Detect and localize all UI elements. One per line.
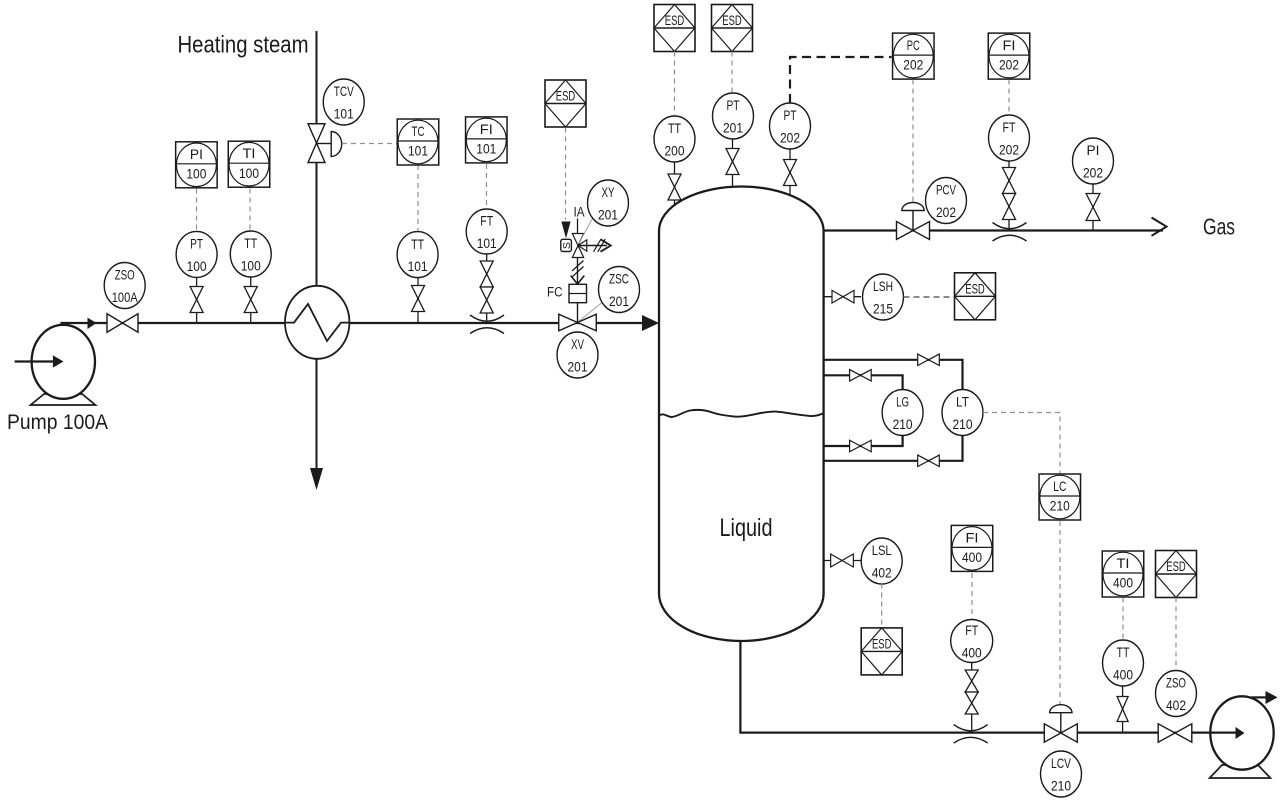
svg-text:PCV: PCV [936, 182, 956, 198]
svg-text:202: 202 [936, 204, 956, 220]
valve LSL root [831, 554, 854, 567]
svg-text:LC: LC [1053, 478, 1066, 494]
svg-text:200: 200 [665, 143, 685, 159]
svg-text:PT: PT [727, 97, 740, 113]
instrument bubble XY 201 [588, 180, 629, 226]
instrument bubble PT 100 [176, 231, 217, 277]
svg-text:LSH: LSH [873, 278, 893, 294]
svg-text:201: 201 [609, 293, 629, 309]
shared instrument LC 210 [1039, 474, 1081, 520]
pump P-100A [32, 325, 95, 399]
signal line LT to LC210 [983, 413, 1060, 474]
signal line LSL to ESD [881, 584, 883, 628]
signal line ESD to ZSO402 [1175, 598, 1177, 671]
svg-text:201: 201 [598, 207, 618, 223]
TCV actuator [331, 132, 342, 157]
signal line FI101 to FT101 [486, 164, 488, 209]
wire feed pipe from pump 100A to vessel [61, 322, 643, 324]
svg-text:FT: FT [480, 213, 493, 229]
valve LCV 210 body [1044, 724, 1077, 742]
instrument bubble TT 101 [397, 232, 438, 278]
svg-text:101: 101 [334, 106, 354, 122]
signal line TC101 to TT101 [417, 165, 419, 231]
instrument bubble TCV 101 [323, 79, 364, 125]
instrument bubble FT 202 [989, 115, 1030, 161]
wire TCV stem [317, 143, 332, 145]
instrument bubble TT 100 [230, 231, 271, 277]
wire TT100 tap [250, 277, 252, 323]
svg-text:TT: TT [411, 236, 424, 252]
instrument bubble LCV 210 [1041, 751, 1082, 797]
svg-text:402: 402 [1166, 697, 1186, 713]
svg-text:PC: PC [907, 37, 920, 53]
arrow pump discharge arrow [1266, 691, 1278, 704]
svg-text:TI: TI [243, 145, 256, 161]
svg-text:PT: PT [784, 107, 797, 123]
wire pump inlet segment [1209, 731, 1237, 733]
solenoid S box [561, 239, 572, 251]
ESD logic box ESD-XV201 [545, 80, 586, 127]
valve TT400 root [1117, 697, 1128, 722]
ESD logic box ESD-LSH [955, 273, 996, 320]
valve PI202 root [1086, 194, 1100, 221]
svg-text:LG: LG [896, 394, 909, 410]
wire TT400 tap [1122, 686, 1124, 733]
open arrow to actuator [571, 276, 585, 284]
svg-text:LSL: LSL [872, 542, 892, 558]
signal line FI400 to FT400 [971, 573, 973, 619]
valve FT400 root B [965, 692, 978, 714]
wire PT201 nozzle [732, 140, 734, 189]
svg-text:202: 202 [1083, 165, 1103, 181]
vent arrow [601, 239, 611, 251]
arrow ESD trip arrow [561, 222, 570, 239]
vent hatches [594, 239, 606, 252]
diaphragm actuator PCV 202 [902, 202, 924, 230]
instrument bubble PT 201 [713, 93, 754, 139]
wire LSL tap [824, 560, 861, 562]
svg-text:XV: XV [571, 336, 584, 352]
svg-text:ZSC: ZSC [609, 271, 629, 287]
valve FT101 root A [480, 261, 493, 287]
heat exchanger E-101 [285, 286, 349, 359]
valve LG lower isolation [850, 440, 872, 452]
svg-text:FT: FT [1003, 119, 1016, 135]
svg-text:FI: FI [1003, 37, 1016, 53]
wire LSH tap [824, 296, 861, 298]
svg-text:210: 210 [893, 416, 913, 432]
instrument bubble TT 200 [654, 116, 695, 162]
wire XV stem [577, 303, 579, 322]
pump P-402 stand [1210, 765, 1271, 778]
instrument bubble FT 400 [951, 620, 993, 663]
valve FT101 root B [480, 287, 493, 313]
arrow steam line down [310, 468, 323, 490]
svg-text:Gas: Gas [1203, 214, 1235, 240]
instrument bubble PI 202 [1073, 138, 1114, 184]
svg-text:PI: PI [190, 146, 203, 162]
wire PT202 nozzle [789, 149, 791, 196]
shared instrument TI 100 [228, 141, 270, 187]
svg-text:Heating steam: Heating steam [178, 32, 309, 59]
wire TT101 tap [417, 278, 419, 323]
wire pump discharge [1251, 696, 1267, 698]
svg-text:210: 210 [953, 416, 973, 432]
instrument bubble TT 400 [1103, 640, 1144, 686]
svg-text:TT: TT [244, 235, 257, 251]
signal line LC210 to LCV [1059, 521, 1061, 705]
svg-text:100: 100 [241, 258, 261, 274]
ESD logic box ESD-ZSO402 [1156, 551, 1197, 598]
actuator line hatches [572, 261, 584, 278]
instrument bubble LT 210 [942, 390, 983, 436]
svg-text:TI: TI [1117, 555, 1130, 571]
valve PT201 root [726, 149, 739, 175]
wire vent line [578, 245, 607, 247]
flow element FE 400 [954, 725, 988, 744]
control valve TCV 101 body [308, 124, 325, 163]
wire PT100 tap [196, 278, 198, 324]
wire FT400 tap [971, 663, 973, 733]
svg-text:ESD: ESD [722, 12, 742, 28]
shared instrument PI 100 [176, 142, 218, 188]
valve FT202 root B [1003, 194, 1016, 220]
signal line FI202 to FT202 [1008, 80, 1010, 115]
svg-text:101: 101 [408, 258, 428, 274]
svg-text:215: 215 [873, 301, 893, 317]
liquid level wavy line [659, 410, 823, 417]
instrument bubble XV 201 [557, 332, 598, 378]
arrow pump 100A inlet arrow [53, 355, 64, 367]
signal line ESD2 to PT201 [731, 52, 733, 93]
wire LT upper tap [824, 360, 963, 391]
shared instrument TI 400 [1102, 551, 1144, 597]
svg-text:400: 400 [962, 645, 982, 661]
svg-text:FI: FI [480, 121, 493, 137]
separator vessel V-210 [659, 187, 824, 642]
valve ZSO 100A body [107, 314, 138, 333]
svg-text:LCV: LCV [1051, 755, 1071, 771]
valve PT202 root [784, 160, 797, 186]
svg-text:400: 400 [1113, 667, 1133, 683]
wire IA supply [577, 219, 579, 234]
svg-text:100: 100 [186, 165, 206, 181]
svg-text:400: 400 [962, 549, 982, 565]
XV 201 piston actuator [569, 284, 587, 302]
instrument bubble PCV 202 [926, 178, 967, 224]
valve TT100 root [244, 287, 257, 313]
pointer ZSC201 [579, 303, 602, 322]
shared instrument FI 101 [466, 117, 508, 163]
svg-text:S: S [561, 242, 573, 249]
svg-text:202: 202 [999, 142, 1019, 158]
ESD logic box ESD-1 [654, 5, 695, 52]
wire LT lower tap [824, 435, 963, 461]
svg-text:Pump 100A: Pump 100A [7, 411, 108, 434]
svg-text:FI: FI [966, 529, 979, 545]
wire LG upper tap [824, 375, 903, 390]
svg-text:XY: XY [602, 184, 615, 200]
valve PCV 202 body [897, 222, 930, 240]
arrow feed after pump [88, 318, 97, 329]
wire pump 100A inlet [15, 360, 57, 362]
svg-text:LT: LT [956, 394, 969, 410]
signal line ESD1 to TT200 [674, 52, 676, 116]
flow element FE 202 [993, 223, 1027, 242]
diaphragm actuator LCV 210 [1050, 705, 1072, 733]
valve FT400 root A [965, 670, 978, 692]
shared instrument FI 202 [988, 33, 1030, 79]
svg-text:402: 402 [872, 565, 892, 581]
svg-text:201: 201 [568, 359, 588, 375]
solenoid pilot valve XY 201 body [572, 234, 587, 258]
signal line PI100 to PT100 [196, 189, 198, 232]
arrow feed into vessel [642, 315, 659, 331]
instrument bubble LSH 215 [863, 274, 904, 320]
pointer XY201 [579, 217, 594, 245]
wire gas outlet line [824, 229, 1163, 231]
signal line TI400 to TT400 [1122, 598, 1124, 641]
wire solenoid to actuator [577, 258, 579, 285]
svg-text:ESD: ESD [556, 88, 576, 104]
arrow pump inlet arrow [1236, 727, 1245, 739]
svg-text:202: 202 [780, 130, 800, 146]
signal line TCV to TC101 [342, 143, 398, 145]
valve FT202 root A [1003, 168, 1016, 194]
instrument bubble PT 202 [770, 103, 811, 149]
pump P-402 [1210, 696, 1273, 769]
valve LG upper isolation [850, 370, 872, 382]
pump P-100A stand [31, 394, 96, 405]
svg-text:ESD: ESD [665, 12, 685, 28]
svg-text:101: 101 [477, 235, 497, 251]
shared instrument TC 101 [397, 119, 439, 165]
svg-text:PT: PT [190, 236, 203, 252]
wire TT200 nozzle [674, 163, 676, 207]
svg-text:ESD: ESD [1166, 558, 1186, 574]
valve TT101 root [412, 286, 425, 312]
svg-text:101: 101 [408, 143, 428, 159]
svg-text:PI: PI [1087, 142, 1100, 158]
svg-text:202: 202 [903, 57, 923, 73]
ESD logic box ESD-2 [712, 5, 753, 52]
wire FT101 tap [486, 254, 488, 323]
signal line PC202 to PCV [912, 80, 914, 203]
svg-text:FT: FT [965, 622, 978, 638]
valve PT100 root [190, 287, 203, 313]
svg-text:210: 210 [1050, 498, 1070, 514]
instrument bubble ZSC 201 [599, 267, 640, 313]
svg-text:100A: 100A [112, 289, 139, 305]
ESD logic box ESD-LSL [861, 628, 902, 675]
wire heating steam line [316, 31, 318, 468]
svg-text:FC: FC [547, 285, 563, 300]
shared instrument FI 400 [951, 525, 993, 571]
signal line TI100 to TT100 [249, 189, 251, 232]
wire liquid outlet from vessel bottom [740, 640, 1209, 733]
valve LSH root [832, 290, 854, 303]
signal PT202 to PC202 bold dashed [790, 57, 892, 103]
svg-text:Liquid: Liquid [720, 514, 773, 542]
instrument bubble ZSO 402 [1156, 671, 1197, 717]
svg-text:TCV: TCV [334, 83, 354, 99]
instrument bubble LG 210 [882, 390, 923, 436]
svg-text:ESD: ESD [872, 635, 892, 651]
svg-text:100: 100 [239, 165, 259, 181]
valve LT upper isolation [918, 354, 940, 366]
svg-text:101: 101 [476, 141, 496, 157]
instrument bubble FT 101 [466, 209, 507, 254]
signal line LSH to ESD [904, 296, 955, 298]
valve TT200 root [668, 174, 681, 200]
svg-text:400: 400 [1113, 575, 1133, 591]
valve LT lower isolation [918, 455, 940, 467]
instrument bubble ZSO 100A [104, 263, 145, 309]
valve XV 201 body [559, 314, 597, 331]
svg-text:TT: TT [668, 120, 681, 136]
svg-text:ZSO: ZSO [1166, 675, 1186, 691]
flow element FE 101 [470, 315, 504, 334]
wire LG lower tap [824, 435, 903, 447]
svg-text:ESD: ESD [965, 280, 985, 296]
signal line ESD to solenoid [565, 128, 567, 221]
wire PI202 tap [1092, 184, 1094, 231]
valve ZSO 402 body [1158, 724, 1192, 742]
svg-text:100: 100 [187, 258, 207, 274]
wire FT202 tap [1008, 161, 1010, 231]
shared instrument PC 202 [893, 33, 935, 79]
svg-text:TT: TT [1117, 644, 1130, 660]
svg-text:IA: IA [574, 204, 586, 220]
svg-text:202: 202 [999, 57, 1019, 73]
svg-text:ZSO: ZSO [115, 267, 135, 283]
svg-text:210: 210 [1051, 778, 1071, 794]
instrument bubble LSL 402 [861, 538, 902, 584]
svg-text:TC: TC [412, 123, 425, 139]
svg-text:201: 201 [723, 120, 743, 136]
arrow gas outlet open [1152, 218, 1167, 236]
